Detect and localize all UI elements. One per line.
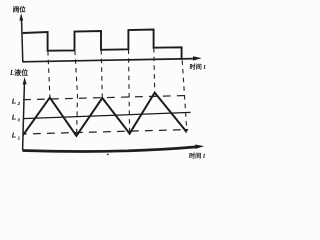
svg-text:时间 t: 时间 t [190, 63, 207, 71]
svg-text:时间 t: 时间 t [189, 152, 206, 160]
dashed vertical 4 (rise to trough2) [129, 50, 130, 133]
svg-text:L2: L2 [12, 96, 21, 106]
bottom y-axis [23, 77, 27, 150]
svg-text:L1: L1 [12, 131, 21, 141]
svg-text:阀位: 阀位 [13, 4, 26, 13]
L0 solid level line [23, 112, 191, 118]
dashed vertical 3 (drop to peak2) [101, 50, 102, 98]
top y-axis [19, 13, 23, 62]
ink speck [107, 154, 109, 156]
end tick [184, 129, 189, 133]
trough1 blob [73, 133, 79, 137]
dashed vertical 1 (drop to peak1) [48, 51, 50, 97]
bottom x-axis [22, 145, 204, 152]
top x-axis [22, 56, 202, 62]
L2 dashed level line [23, 95, 191, 99]
trough2 blob [127, 131, 133, 135]
liquid level triangle wave [23, 93, 186, 136]
svg-text:L液位: L液位 [9, 68, 28, 77]
dashed vertical 5 (drop to peak3) [153, 48, 156, 93]
svg-text:L0: L0 [12, 113, 21, 123]
L1 dashed level line [23, 130, 187, 134]
dashed vertical 2 (rise to trough1) [75, 51, 78, 136]
dashed vertical 6 (end to trough3) [182, 60, 187, 131]
valve square wave [23, 30, 182, 60]
